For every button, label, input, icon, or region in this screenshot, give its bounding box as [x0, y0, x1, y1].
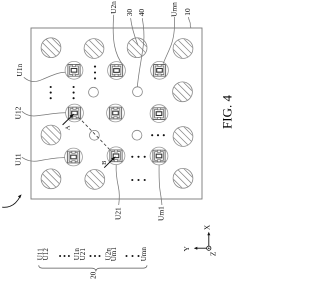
- svg-text:U2n: U2n: [109, 1, 118, 14]
- substrate 10 outline: [31, 28, 202, 199]
- unit Um1 (C3): [150, 147, 168, 165]
- hatched hole row3 c1: [35, 121, 69, 152]
- unit U2n (A2): [108, 62, 126, 80]
- stack ellipsis dots group3: [126, 255, 140, 257]
- hatched hole row1 c3 (target of 30 leader): [121, 33, 155, 64]
- svg-text:B: B: [101, 161, 108, 165]
- hatched hole 30 row1 c1: [35, 33, 69, 64]
- leader 30: [131, 18, 138, 45]
- legend stack labels: [36, 247, 148, 262]
- coordinate axes: [194, 232, 211, 250]
- small circle 40 r3c3: [132, 130, 142, 140]
- svg-text:Y: Y: [182, 245, 191, 251]
- svg-text:U12: U12: [14, 106, 23, 119]
- device direction arrow bottom-left: [2, 194, 21, 207]
- svg-text:Umn: Umn: [169, 2, 178, 17]
- unit U21 (C2): [107, 147, 125, 165]
- svg-text:20: 20: [88, 271, 97, 279]
- axis X up: [208, 234, 210, 246]
- brace for 20: [39, 265, 147, 270]
- ellipsis dots between rows at unit col1: [73, 86, 75, 99]
- unit U12 (B1): [66, 104, 84, 122]
- hatched hole row3 c4: [167, 122, 201, 153]
- svg-text:U12: U12: [42, 248, 50, 261]
- svg-text:U1n: U1n: [15, 63, 24, 76]
- svg-text:A: A: [64, 125, 71, 130]
- hatched hole row4 c4: [167, 164, 201, 195]
- ellipsis dots bottom hatch row: [131, 179, 146, 181]
- leader 10: [189, 17, 191, 28]
- dashed line A-B: [78, 117, 112, 152]
- leader U2n: [113, 15, 123, 65]
- hatched hole row1 c2: [78, 34, 112, 65]
- hatched hole row1 c4: [167, 34, 201, 65]
- svg-text:Um1: Um1: [157, 206, 166, 221]
- unit Umn (A3): [151, 61, 169, 79]
- svg-text:Umn: Umn: [140, 247, 148, 262]
- hatched hole row4 c1: [35, 164, 69, 195]
- stack ellipsis dots group2: [90, 255, 101, 257]
- leader Um1: [159, 165, 162, 205]
- stack ellipsis dots group1: [59, 255, 70, 257]
- svg-text:X: X: [203, 224, 212, 230]
- svg-text:Um1: Um1: [110, 247, 118, 262]
- svg-text:FIG. 4: FIG. 4: [220, 95, 235, 129]
- ellipsis dots unit row3: [131, 156, 146, 158]
- hatched hole row4 c2: [79, 165, 113, 196]
- svg-text:30: 30: [125, 9, 134, 17]
- arrow into unit U21 (point B): [104, 156, 116, 167]
- ellipsis dots row1 between c1-c2: [94, 66, 96, 80]
- unit B2: [107, 104, 125, 122]
- unit B3: [150, 105, 168, 123]
- arrow into unit U12 (point A): [63, 114, 75, 125]
- hatched hole row2 c4: [167, 77, 201, 108]
- ellipsis dots between rows at hatch col1: [50, 86, 52, 99]
- svg-text:Z: Z: [209, 251, 218, 256]
- svg-text:U11: U11: [14, 153, 23, 166]
- unit U1n (A1): [65, 61, 83, 79]
- small circle 40 r2c2: [89, 87, 99, 97]
- leader U11: [22, 157, 65, 161]
- svg-text:U21: U21: [113, 207, 122, 220]
- leader U21: [116, 165, 119, 205]
- leader U12: [22, 111, 66, 116]
- leader Umn: [163, 17, 174, 64]
- axis Y left: [196, 247, 207, 249]
- leader U1n: [24, 72, 65, 81]
- leader 40: [137, 18, 144, 87]
- small circle 40 r3c2 (dashed line passes through): [90, 130, 100, 140]
- ellipsis dots half-row y135: [151, 134, 165, 136]
- svg-text:U21: U21: [79, 248, 87, 261]
- svg-text:40: 40: [137, 9, 146, 17]
- small circle 40 r2c3 (target of 40 leader): [133, 87, 143, 97]
- axis Z origin circled dot: [207, 246, 211, 250]
- svg-text:10: 10: [183, 8, 192, 16]
- unit U11 (C1): [65, 148, 83, 166]
